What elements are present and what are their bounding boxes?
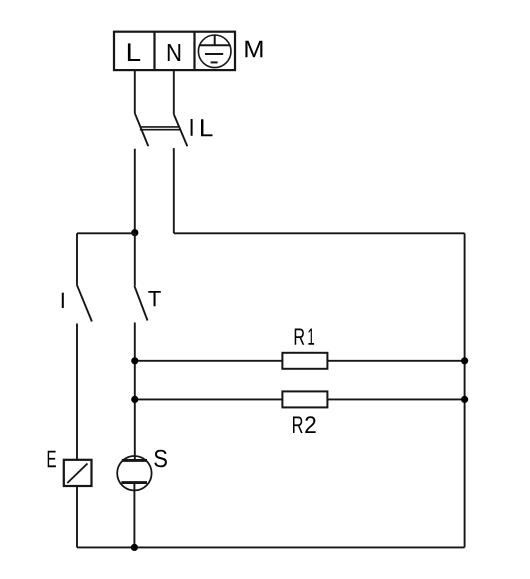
bottom bus wire bbox=[77, 546, 465, 548]
label I bbox=[62, 293, 64, 308]
terminal block M outline bbox=[114, 32, 235, 70]
wire right bus vertical bbox=[464, 233, 466, 547]
wire L pole down to node A bbox=[134, 149, 136, 233]
earth symbol short bar bbox=[211, 61, 218, 63]
wire heater E to bottom bus bbox=[76, 486, 78, 547]
node A junction dot bbox=[131, 229, 138, 236]
label I L bbox=[191, 119, 193, 136]
wire switch I to heater E bbox=[76, 324, 78, 460]
wire N pole down to corner bbox=[173, 148, 175, 233]
switch T blade bbox=[134, 286, 147, 321]
resistor R2 body bbox=[282, 391, 327, 407]
label E bbox=[48, 451, 56, 467]
node B junction dot R1 left bbox=[131, 357, 138, 364]
heater E box bbox=[64, 460, 92, 486]
lamp S top chord bbox=[122, 459, 147, 462]
switch IL pole N blade bbox=[174, 114, 188, 146]
label R2 bbox=[293, 417, 303, 433]
terminal label N bbox=[168, 44, 180, 61]
node F junction dot bottom bbox=[131, 544, 138, 551]
wire node A branch left horizontal bbox=[77, 232, 135, 234]
earth symbol long bar bbox=[199, 44, 229, 46]
switch I blade bbox=[77, 285, 92, 322]
wire lamp S to bottom bus bbox=[133, 484, 135, 547]
terminal block divider N/earth bbox=[193, 32, 195, 70]
resistor R1 body bbox=[282, 353, 327, 369]
label S bbox=[154, 450, 167, 467]
earth symbol stem bbox=[214, 35, 216, 45]
resistor R2 wire bbox=[135, 398, 465, 400]
terminal block divider L/N bbox=[153, 32, 155, 70]
node C junction dot R2 left bbox=[131, 396, 138, 403]
switch IL linkage upper line bbox=[140, 126, 180, 128]
wire node A down to switch T bbox=[134, 233, 136, 286]
switch IL linkage lower line bbox=[140, 129, 180, 131]
resistor R1 wire bbox=[135, 360, 465, 362]
switch IL pole L blade bbox=[135, 113, 149, 146]
wire left branch vertical to switch I bbox=[76, 233, 78, 284]
label T bbox=[148, 291, 160, 306]
wire N horizontal run to right bus bbox=[174, 232, 465, 234]
label M bbox=[245, 41, 262, 58]
earth symbol middle bar bbox=[205, 53, 223, 55]
terminal label L bbox=[128, 43, 140, 61]
lamp S bottom chord bbox=[121, 481, 147, 484]
node E2 junction dot R2 right bbox=[461, 396, 468, 403]
node D junction dot R1 right bbox=[461, 357, 468, 364]
heater E diagonal bbox=[67, 464, 87, 484]
wire L from terminal bbox=[134, 70, 136, 113]
wire N from terminal bbox=[173, 70, 175, 114]
earth terminal symbol circle bbox=[198, 35, 231, 68]
lamp S circle bbox=[117, 456, 151, 490]
label R1 bbox=[295, 329, 305, 345]
wire switch T down to lamp S bbox=[134, 323, 136, 460]
